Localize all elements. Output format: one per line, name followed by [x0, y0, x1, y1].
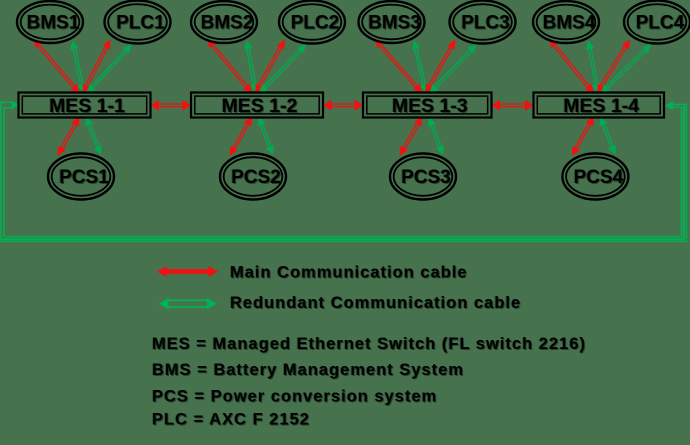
redundant cable MES 1-2 to BMS2 (green) [244, 40, 259, 94]
main cable MES 1-4 to PCS4 (red) [572, 117, 594, 157]
main cable MES 1-2 to BMS2 (red) [207, 39, 252, 94]
svg-text:PLC = AXC F 2152: PLC = AXC F 2152 [152, 411, 310, 429]
node PLC4 [624, 1, 690, 44]
node PCS4 [562, 154, 628, 200]
main cable MES 1-1 to BMS1 (red) [33, 39, 80, 94]
node PCS3 [390, 154, 456, 200]
svg-text:PLC3: PLC3 [461, 13, 510, 34]
svg-text:MES 1-1: MES 1-1 [49, 95, 125, 117]
node PLC3 [450, 1, 516, 44]
main cable MES 1-3 to PCS3 (red) [400, 117, 423, 157]
redundant cable MES 1-4 to BMS4 (green) [586, 40, 601, 94]
svg-text:MES 1-3: MES 1-3 [392, 95, 468, 117]
redundant cable MES 1-3 to PLC3 (green) [429, 44, 477, 94]
svg-text:BMS = Battery Management Syste: BMS = Battery Management System [152, 361, 464, 379]
redundant cable MES 1-1 to BMS1 (green) [70, 40, 86, 94]
redundant cable MES 1-1 to PLC1 (green) [87, 44, 133, 94]
legend main cable arrow (red solid) [157, 266, 218, 277]
node BMS1 [17, 1, 83, 43]
redundant ring cable (green, around bottom) [0, 101, 687, 242]
switch MES 1-4 [534, 93, 665, 118]
node BMS2 [191, 1, 257, 43]
node PLC2 [279, 1, 345, 44]
node BMS3 [359, 1, 425, 43]
redundant cable MES 1-2 to PLC2 (green) [259, 44, 307, 94]
svg-text:MES = Managed Ethernet Switch: MES = Managed Ethernet Switch (FL switch… [152, 335, 586, 353]
svg-text:BMS2: BMS2 [201, 13, 254, 34]
main cable MES 1-1 to MES 1-2 (red) [151, 100, 192, 111]
main cable MES 1-1 to PCS1 (red) [58, 117, 80, 157]
svg-text:MES 1-4: MES 1-4 [563, 95, 639, 117]
node BMS4 [533, 1, 599, 43]
main cable MES 1-3 to MES 1-4 (red) [492, 100, 534, 111]
redundant cable MES 1-4 to PLC4 (green) [601, 44, 652, 94]
svg-text:PLC2: PLC2 [291, 13, 340, 34]
svg-text:MES 1-2: MES 1-2 [222, 95, 298, 117]
svg-text:PCS = Power conversion system: PCS = Power conversion system [152, 388, 437, 406]
main cable MES 1-2 to PCS2 (red) [230, 117, 253, 157]
svg-text:BMS3: BMS3 [368, 13, 421, 34]
svg-text:BMS1: BMS1 [27, 13, 80, 34]
redundant cable MES 1-1 to PCS1 (green) [85, 117, 101, 156]
svg-text:Redundant Communication cable: Redundant Communication cable [230, 294, 521, 312]
main cable MES 1-4 to PLC4 (red) [597, 40, 630, 94]
svg-text:BMS4: BMS4 [543, 13, 596, 34]
svg-text:PCS3: PCS3 [401, 167, 451, 188]
node PLC1 [105, 1, 171, 44]
svg-text:PLC1: PLC1 [116, 13, 165, 34]
legend redundant cable arrow (green outline) [159, 298, 217, 309]
redundant cable MES 1-3 to PCS3 (green) [428, 117, 444, 156]
switch MES 1-2 [191, 93, 323, 118]
svg-text:Main Communication cable: Main Communication cable [230, 264, 468, 282]
svg-text:PCS2: PCS2 [231, 167, 281, 188]
node PCS1 [48, 154, 114, 200]
redundant cable MES 1-4 to PCS4 (green) [600, 117, 617, 156]
main cable MES 1-2 to PLC2 (red) [255, 40, 285, 94]
svg-text:PLC4: PLC4 [636, 13, 685, 34]
main cable MES 1-4 to BMS4 (red) [549, 39, 594, 94]
switch MES 1-1 [19, 93, 151, 118]
node PCS2 [220, 154, 286, 200]
main cable MES 1-3 to BMS3 (red) [375, 39, 423, 94]
redundant cable MES 1-3 to BMS3 (green) [412, 40, 429, 94]
svg-text:PCS4: PCS4 [574, 167, 624, 188]
redundant cable MES 1-2 to PCS2 (green) [258, 117, 274, 156]
switch MES 1-3 [363, 93, 492, 118]
svg-text:PCS1: PCS1 [59, 167, 109, 188]
main cable MES 1-3 to PLC3 (red) [425, 40, 455, 94]
main cable MES 1-1 to PLC1 (red) [83, 40, 111, 94]
main cable MES 1-2 to MES 1-3 (red) [323, 100, 363, 111]
